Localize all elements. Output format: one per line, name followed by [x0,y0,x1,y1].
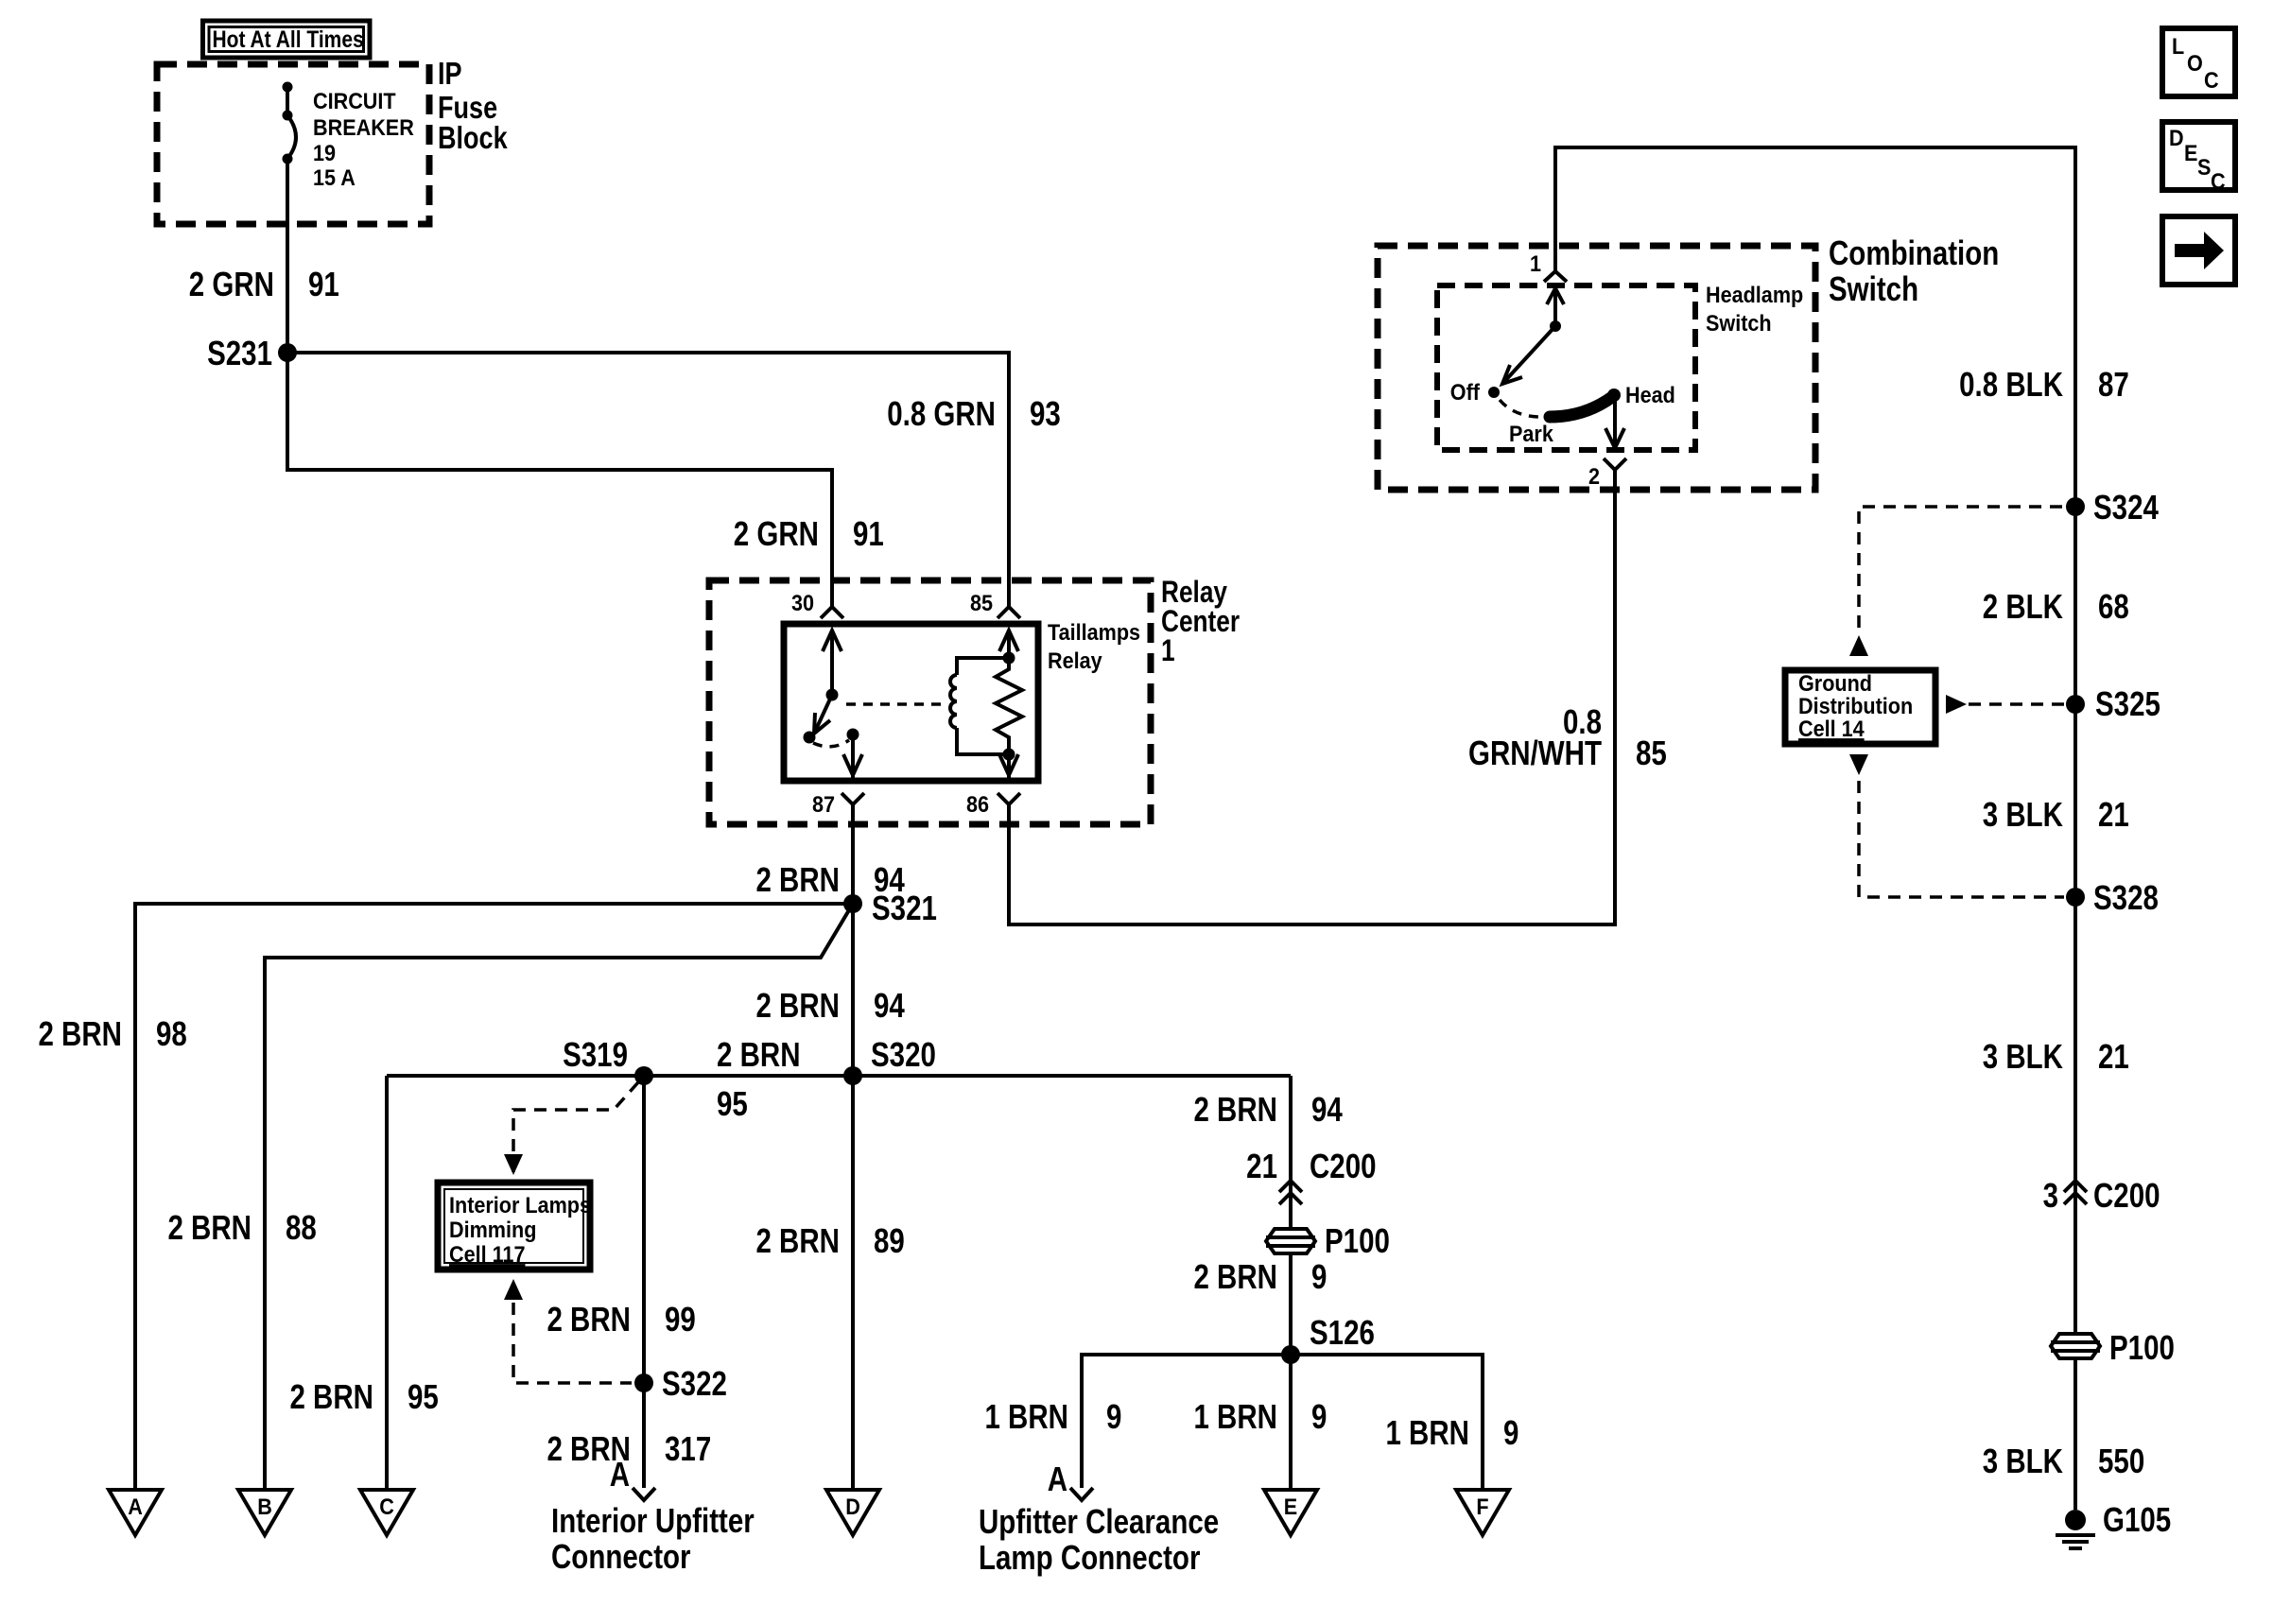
interior upfitter connector pin A chevron [610,1455,655,1500]
pin 86 connector chevron [998,793,1020,804]
svg-text:F: F [1476,1494,1488,1519]
svg-text:Dimming: Dimming [449,1217,536,1242]
wire: S321 down to S320 [851,904,855,1076]
Head contact dot [1607,389,1621,402]
wire: S231 right to relay pin 85 [287,353,1009,608]
dashed pointer: S319 to interior lamps dimming box [513,1082,638,1172]
connector C200 pin 21 chevrons [1246,1147,1376,1204]
svg-text:2 BRN: 2 BRN [755,986,840,1024]
svg-text:2 BRN: 2 BRN [755,1221,840,1259]
svg-text:95: 95 [717,1084,748,1122]
svg-text:3: 3 [2043,1176,2058,1214]
connector A triangle [109,1490,162,1535]
svg-text:94: 94 [1311,1090,1343,1128]
ground rail below P100 [2073,1360,2077,1510]
svg-text:Cell 14: Cell 14 [1798,716,1865,741]
wire: breaker to S231 [286,159,289,353]
up arrow into dimming box [504,1279,523,1300]
svg-text:98: 98 [156,1014,187,1052]
svg-text:3 BLK: 3 BLK [1983,1442,2063,1479]
label 2 BRN 94 (pin 87) [755,860,905,898]
label 2 BRN 9 [1193,1257,1327,1295]
label 3 BLK 21 (upper) [1983,795,2129,833]
svg-text:99: 99 [665,1300,696,1338]
Off contact dot [1488,387,1500,398]
node S328 [2066,878,2159,916]
ground G105 [2056,1500,2171,1548]
label 0.8 BLK 87 [1959,365,2129,403]
relay pin86 internal arrow (down) [999,754,1018,775]
relay pin85 internal arrow (up) [999,631,1018,651]
svg-text:Connector: Connector [551,1537,691,1575]
svg-text:A: A [128,1494,143,1519]
svg-text:2 GRN: 2 GRN [734,514,819,552]
label 2 BRN 89 [755,1221,904,1259]
relay resistor [996,658,1022,754]
svg-text:1: 1 [1530,251,1541,276]
arrow legend box [2162,216,2235,285]
svg-text:Lamp Connector: Lamp Connector [979,1538,1201,1576]
svg-text:1 BRN: 1 BRN [1385,1413,1469,1451]
label 2 BRN 99 [547,1300,695,1338]
wire: connector C drop [385,1076,389,1489]
svg-text:Switch: Switch [1706,310,1772,336]
relay coil [950,675,957,728]
relay coil bottom wire [957,728,1009,754]
pin 2 connector chevron [1604,458,1626,470]
grommet P100 (left) [1266,1221,1390,1259]
label 2 BRN 94 (right branch) [1193,1090,1343,1128]
relay coil bottom node dot [1003,749,1015,761]
relay switch arm arrowhead [814,713,830,734]
wire: relay pin 87 down to S321 [851,804,855,904]
svg-text:2 BRN: 2 BRN [289,1377,373,1415]
svg-text:0.8 GRN: 0.8 GRN [887,394,996,432]
label 2 BRN / 95 (S319-S320) [717,1035,801,1122]
label 2 GRN 91 (upper) [189,265,339,302]
label 2 BRN 88 [167,1208,316,1246]
Headlamp Switch dashed box [1437,285,1695,450]
svg-text:9: 9 [1311,1257,1327,1295]
Interior Upfitter Connector caption [551,1501,755,1575]
svg-text:2 BLK: 2 BLK [1983,587,2063,625]
relay wire contact to pin 87 [851,734,855,778]
svg-text:CIRCUIT: CIRCUIT [313,88,396,113]
svg-text:Interior Lamps: Interior Lamps [449,1192,591,1218]
relay coil top node dot [1003,652,1015,665]
svg-text:21: 21 [2098,795,2129,833]
label 1 BRN 9 (clearance A) [984,1397,1121,1435]
svg-text:D: D [845,1494,860,1519]
svg-text:9: 9 [1503,1413,1518,1451]
svg-text:B: B [257,1494,272,1519]
label 3 BLK 21 (lower) [1983,1037,2129,1075]
wire: relay pin 86 to headlamp switch pin 2 [1009,470,1615,924]
Relay Center 1 label [1161,577,1240,668]
wire: pin 1 into switch [1553,288,1557,326]
svg-text:3 BLK: 3 BLK [1983,795,2063,833]
svg-text:317: 317 [665,1429,711,1467]
svg-text:S325: S325 [2095,684,2160,722]
dashed pointer: S322 to dimming box [513,1303,632,1383]
svg-text:95: 95 [408,1377,439,1415]
svg-text:Cell 117: Cell 117 [449,1241,525,1267]
taillamps relay solid box [784,624,1038,781]
grommet P100 (right) [2051,1328,2175,1366]
svg-text:S: S [2197,154,2211,180]
label 1 BRN 9 (E branch) [1193,1397,1327,1435]
svg-text:Hot At All Times: Hot At All Times [213,26,364,52]
svg-text:19: 19 [313,140,336,165]
relay mechanical dashed link [846,702,947,706]
svg-text:A: A [610,1455,630,1493]
dashed pointer: ground box right to S325 [1969,702,2064,706]
LOC legend box [2162,28,2235,96]
svg-text:2 BRN: 2 BRN [167,1208,252,1246]
svg-text:C200: C200 [2093,1176,2160,1214]
svg-text:2 BRN: 2 BRN [38,1014,122,1052]
node S321 [843,889,937,926]
svg-text:Combination: Combination [1829,233,1999,271]
relay switch arm [814,695,832,734]
down arrow to S328 branch [1849,754,1868,775]
svg-text:85: 85 [970,590,993,615]
svg-text:Center: Center [1161,606,1240,639]
wire: S231 down and right to relay pin 30 [287,353,832,608]
label 1 BRN 9 (F branch) [1385,1413,1518,1451]
Taillamps Relay label [1048,619,1140,673]
dashed pointer: ground box up to S324 [1859,507,2064,628]
svg-text:BREAKER: BREAKER [313,114,414,140]
pin 1 internal arrow (up) [1547,288,1564,304]
label 2 BLK 68 [1983,587,2129,625]
wiper thick arc to Head [1550,397,1612,417]
svg-text:0.8 BLK: 0.8 BLK [1959,365,2063,403]
label 0.8 GRN/WHT 85 [1468,702,1667,771]
svg-text:IP: IP [438,58,462,92]
svg-text:Park: Park [1509,421,1553,446]
svg-text:C200: C200 [1310,1147,1377,1184]
svg-text:87: 87 [812,791,835,817]
label 0.8 GRN 93 [887,394,1061,432]
label 2 BRN 98 [38,1014,186,1052]
Hot At All Times box [203,21,371,58]
dashed pointer: ground box down to S328 [1859,781,2064,897]
svg-text:89: 89 [874,1221,905,1259]
relay switch pivot dot [826,689,839,701]
svg-text:88: 88 [286,1208,317,1246]
wire: S126 right to connector F [1291,1355,1483,1489]
svg-text:D: D [2169,125,2184,150]
wire: top feed from headlamp switch pin 1 to ground rail [1555,147,2075,331]
svg-text:87: 87 [2098,365,2129,403]
svg-text:Taillamps: Taillamps [1048,619,1140,645]
svg-text:E: E [2184,140,2197,165]
svg-text:GRN/WHT: GRN/WHT [1468,734,1602,771]
svg-text:Block: Block [438,122,508,156]
svg-text:C: C [2211,168,2226,194]
Combination Switch label [1829,233,1999,307]
svg-text:2 BRN: 2 BRN [547,1300,631,1338]
pin 87 connector chevron [842,793,864,804]
svg-text:21: 21 [1246,1147,1277,1184]
Relay Center 1 dashed box [709,580,1151,824]
Interior Lamps Dimming Cell 117 box [438,1183,591,1270]
node S325 [2066,684,2160,722]
svg-text:A: A [1048,1460,1067,1497]
connector B triangle [238,1490,291,1535]
up arrow to S324 branch [1849,635,1868,656]
svg-text:C: C [379,1494,394,1519]
svg-text:S126: S126 [1310,1313,1375,1351]
right arrow to S325 branch [1946,695,1967,714]
pin 2 internal arrow (down) [1605,428,1624,448]
svg-text:2: 2 [1588,463,1600,489]
svg-text:91: 91 [853,514,884,552]
svg-text:Headlamp: Headlamp [1706,282,1803,307]
IP Fuse Block dashed box [157,64,429,224]
relay contact travel dashed arc [813,740,849,747]
DESC legend box [2162,122,2235,194]
down arrow into dimming box [504,1154,523,1175]
pin 30 connector chevron [821,607,843,618]
svg-text:2 BRN: 2 BRN [755,860,840,898]
relay pin30 internal arrow (up) [823,631,842,651]
svg-text:91: 91 [308,265,339,302]
wire: S320 down to connector D [851,1076,855,1489]
svg-text:Interior Upfitter: Interior Upfitter [551,1501,755,1539]
svg-text:21: 21 [2098,1037,2129,1075]
svg-text:G105: G105 [2103,1500,2171,1538]
label 3 BLK 550 [1983,1442,2144,1479]
svg-text:Switch: Switch [1829,269,1918,307]
svg-text:S231: S231 [207,334,272,371]
svg-text:30: 30 [791,590,814,615]
IP Fuse Block label [438,58,508,156]
node S319 [563,1035,653,1085]
svg-text:15 A: 15 A [313,164,356,190]
connector C200 pin 3 chevrons [2043,1176,2160,1214]
svg-text:86: 86 [966,791,989,817]
wire: S321 left to connector A [135,904,853,1489]
svg-text:S322: S322 [662,1364,727,1402]
pin 1 connector chevron [1544,271,1567,282]
wire: S126 left to upfitter clearance connector A [1082,1355,1291,1488]
wire: Head contact down to pin 2 [1613,395,1617,449]
svg-text:S321: S321 [872,889,937,926]
node S126 [1281,1313,1375,1364]
wire: S319 down to interior upfitter connector A [642,1076,646,1488]
svg-text:94: 94 [874,986,905,1024]
svg-text:68: 68 [2098,587,2129,625]
node S231 [207,334,297,371]
circuit breaker 19 symbol [283,82,297,164]
circuit breaker label [313,88,414,190]
wire: S321 diagonal to connector B [265,904,853,1489]
svg-text:9: 9 [1106,1397,1121,1435]
svg-text:Head: Head [1625,382,1675,407]
wire: pin 85 stub inside relay [1007,630,1011,658]
svg-text:Fuse: Fuse [438,92,497,126]
node S324 [2066,488,2160,526]
svg-text:85: 85 [1636,734,1667,771]
svg-text:S319: S319 [563,1035,628,1073]
svg-text:S324: S324 [2093,488,2160,526]
svg-text:C: C [2204,67,2219,93]
relay wire coil to pin 86 [1007,754,1011,778]
relay coil branch wire [957,658,1009,675]
Off-Park dashed travel arc [1500,400,1545,417]
pin 85 connector chevron [998,607,1020,618]
svg-text:Off: Off [1450,379,1481,405]
Headlamp Switch label [1706,282,1803,336]
Combination Switch dashed box [1378,246,1815,490]
ground rail wire [2073,147,2077,1332]
wire: pin 30 stub inside relay [830,630,834,695]
label 2 BRN 317 [547,1429,711,1467]
svg-text:E: E [1284,1494,1297,1519]
svg-text:Relay: Relay [1048,648,1102,673]
wire: below P100 to S126 and E [1289,1255,1293,1489]
wire: S320 branch right and down to S126 [1289,1076,1293,1227]
svg-text:O: O [2187,50,2203,76]
connector D triangle [826,1490,879,1535]
svg-text:Relay: Relay [1161,577,1228,610]
svg-text:550: 550 [2098,1442,2144,1479]
svg-text:2 BRN: 2 BRN [1193,1090,1277,1128]
wire: main horizontal S319/S320 branch [387,1074,1291,1078]
relay right contact dot [847,729,859,741]
svg-text:Upfitter Clearance: Upfitter Clearance [979,1502,1219,1540]
connector C triangle [360,1490,413,1535]
svg-text:93: 93 [1030,394,1061,432]
svg-text:1 BRN: 1 BRN [984,1397,1068,1435]
svg-text:1 BRN: 1 BRN [1193,1397,1277,1435]
svg-text:1: 1 [1161,635,1175,668]
svg-text:2 BRN: 2 BRN [1193,1257,1277,1295]
connector E triangle [1264,1490,1317,1535]
Upfitter Clearance Lamp Connector caption [979,1502,1219,1576]
node S320 [843,1035,936,1085]
node S322 [634,1364,727,1402]
svg-text:L: L [2172,33,2184,59]
connector F triangle [1456,1490,1509,1535]
svg-text:9: 9 [1311,1397,1327,1435]
svg-text:P100: P100 [2109,1328,2175,1366]
svg-text:2 GRN: 2 GRN [189,265,274,302]
svg-text:S328: S328 [2093,878,2159,916]
svg-text:2 BRN: 2 BRN [717,1035,801,1073]
label 2 BRN 95 (C branch) [289,1377,438,1415]
relay pin87 internal arrow (down) [843,754,862,775]
label 2 GRN 91 (lower) [734,514,884,552]
headlamp switch pivot dot [1550,320,1561,332]
Ground Distribution Cell 14 box [1785,670,1935,744]
label 2 BRN 94 (S321-S320) [755,986,905,1024]
svg-text:P100: P100 [1325,1221,1390,1259]
relay left stationary contact dot [804,732,816,744]
headlamp switch arm [1502,326,1555,384]
svg-text:S320: S320 [871,1035,936,1073]
upfitter clearance connector pin A chevron [1048,1460,1093,1500]
svg-text:3 BLK: 3 BLK [1983,1037,2063,1075]
headlamp switch arm arrowhead [1502,365,1522,384]
